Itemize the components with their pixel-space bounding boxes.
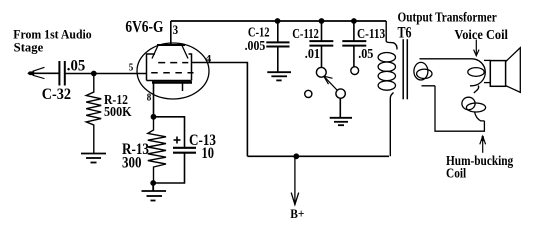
wire to C-13 top xyxy=(154,117,185,147)
ground R-12 xyxy=(81,154,106,163)
hum-bucking coil xyxy=(462,86,486,121)
wire screen pin 4 xyxy=(192,63,248,157)
svg-text:Voice Coil: Voice Coil xyxy=(454,28,508,43)
capacitor C-12 xyxy=(266,21,289,72)
switch contact C-112 xyxy=(316,67,326,77)
hum-bucking pointer arrow xyxy=(480,136,486,153)
svg-text:C-113: C-113 xyxy=(357,27,385,42)
node C-112 tap xyxy=(319,18,325,24)
cathode stub xyxy=(182,82,184,91)
svg-text:.05: .05 xyxy=(67,57,86,74)
plus sign C-13 xyxy=(174,137,181,144)
svg-text:6V6-G: 6V6-G xyxy=(125,17,163,36)
beam plate diagonals xyxy=(152,46,188,59)
svg-text:C-112: C-112 xyxy=(292,27,319,42)
capacitor C-13 xyxy=(173,148,196,153)
cathode xyxy=(152,81,192,84)
resistor R-12 xyxy=(86,76,101,153)
transformer T6 primary lead bottom xyxy=(390,93,393,157)
node B+ junction xyxy=(293,153,299,159)
wire C-13 bottom xyxy=(153,153,184,183)
switch arm arrow xyxy=(324,76,337,90)
wire secondary left drop xyxy=(435,86,484,131)
svg-text:8: 8 xyxy=(147,93,152,104)
svg-text:T6: T6 xyxy=(398,25,412,42)
tube 6V6-G envelope U1 xyxy=(137,43,209,99)
wire B+ bottom rail xyxy=(247,155,389,157)
capacitor C-112 xyxy=(309,21,333,68)
wire C-32 to grid pin 5 xyxy=(65,73,147,75)
node junction grid xyxy=(91,71,97,77)
svg-text:B+: B+ xyxy=(290,207,304,221)
capacitor C-32 xyxy=(59,61,64,86)
beam plate box xyxy=(147,54,192,81)
voice coil pointer arrow xyxy=(474,40,479,56)
ground cathode xyxy=(142,183,167,201)
svg-text:Output Transformer: Output Transformer xyxy=(398,11,497,26)
wire switch to ground xyxy=(339,99,341,118)
node cathode top junction xyxy=(151,114,157,120)
switch arm pole xyxy=(336,89,345,98)
svg-text:Stage: Stage xyxy=(14,41,44,55)
ground C-12 xyxy=(267,72,291,80)
transformer T6 core xyxy=(403,39,407,99)
wire cathode pin 8 down xyxy=(153,82,155,117)
transformer secondary / voice coil loop xyxy=(414,59,485,86)
capacitor C-113 xyxy=(342,21,366,67)
svg-text:5: 5 xyxy=(129,63,134,74)
wire to speaker top xyxy=(484,59,490,61)
svg-text:300: 300 xyxy=(122,155,142,172)
speaker driver xyxy=(490,61,505,87)
svg-text:3: 3 xyxy=(173,22,179,37)
svg-text:.01: .01 xyxy=(305,47,320,62)
node cathode bottom junction xyxy=(150,180,156,186)
input arrow xyxy=(27,67,44,78)
resistor R-13 xyxy=(148,117,166,181)
svg-text:500K: 500K xyxy=(104,105,132,120)
svg-text:From 1st Audio: From 1st Audio xyxy=(13,28,91,42)
svg-text:10: 10 xyxy=(202,145,215,162)
svg-text:.005: .005 xyxy=(245,39,266,54)
transformer T6 primary lead top xyxy=(386,21,397,50)
svg-text:Coil: Coil xyxy=(446,166,466,181)
svg-text:C-32: C-32 xyxy=(42,86,72,103)
switch contact unused xyxy=(305,90,312,97)
svg-text:.05: .05 xyxy=(358,47,373,62)
tube plate xyxy=(157,21,185,45)
node C-113 tap xyxy=(351,18,357,24)
speaker cone xyxy=(506,48,521,93)
transformer T6 primary winding xyxy=(378,53,395,91)
wire plate top rail xyxy=(171,20,386,22)
wire input to C-32 xyxy=(32,72,59,74)
B+ arrow xyxy=(291,156,299,204)
node C-12 tap xyxy=(275,18,281,24)
wire to speaker bottom xyxy=(484,82,490,84)
label From 1st Audio Stage xyxy=(13,28,91,55)
grid dashed lines xyxy=(151,63,193,73)
switch contact C-113 xyxy=(351,67,359,75)
ground switch xyxy=(330,118,352,125)
